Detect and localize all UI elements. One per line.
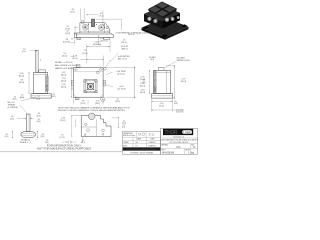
svg-text:.12: .12: [71, 39, 74, 41]
right side view left dim: [142, 70, 150, 93]
left side view bottom labels: [34, 94, 56, 101]
detail A foot flange: [21, 131, 35, 137]
svg-text:[4.5]: [4.5]: [10, 118, 14, 120]
svg-text:BALL DRIVER ⌀.35 [9.0]: BALL DRIVER ⌀.35 [9.0]: [55, 64, 76, 67]
svg-text:[12.7mm]: [12.7mm]: [118, 88, 126, 90]
dim: below front view 2.000 [50.8mm]: [71, 39, 111, 64]
svg-text:[6.4]: [6.4]: [151, 59, 155, 61]
front elevation view body: [74, 19, 113, 40]
label near 3D view: [128, 33, 141, 36]
title block frame: [123, 128, 198, 154]
svg-text:[50.8mm]: [50.8mm]: [93, 44, 102, 46]
dim: plan view top: [72, 55, 103, 66]
svg-text:[38.1]: [38.1]: [95, 103, 100, 105]
left side view dims: [19, 72, 30, 99]
label: M6 ball drivers 3 lines: [55, 61, 78, 70]
plan view left dim: [61, 68, 72, 98]
plan view right edge screw: [103, 80, 105, 86]
dim: left of front view: [65, 26, 79, 35]
dim: lower left of front view: [63, 37, 75, 45]
svg-text:[9.0]: [9.0]: [71, 12, 75, 14]
leader line from screw to counterbore note: [96, 19, 151, 34]
svg-text:THOR: THOR: [164, 130, 178, 136]
svg-text:SCALE 2 : 1: SCALE 2 : 1: [19, 141, 31, 144]
bottom view left dims: [60, 115, 81, 139]
plan view outer body: [73, 68, 103, 98]
svg-text:[9.0]: [9.0]: [37, 121, 41, 123]
svg-text:[2.5]: [2.5]: [22, 51, 26, 53]
detail callout circle A: [100, 97, 105, 101]
svg-text:[60.0]: [60.0]: [140, 86, 145, 88]
detail A stem: [26, 114, 30, 131]
svg-text:[35.0]: [35.0]: [61, 120, 66, 122]
plan view bottom edge screw: [75, 97, 79, 100]
plan view right leader labels: [106, 70, 127, 90]
detail A caption: [19, 139, 31, 145]
dim: top right of front view: [86, 13, 104, 18]
sheet bottom border line: [0, 151, 123, 153]
svg-text:[M3.5]: [M3.5]: [122, 48, 128, 50]
svg-text:REQUEST, USE RECOMMENDED TORQU: REQUEST, USE RECOMMENDED TORQUE VALUES W…: [58, 109, 125, 112]
svg-text:[8.0]: [8.0]: [41, 136, 45, 138]
svg-text:[30.0]: [30.0]: [61, 81, 66, 83]
svg-text:[14.0]: [14.0]: [121, 42, 126, 44]
right side view body: [152, 68, 173, 99]
svg-text:DIMENSIONS: DIMENSIONS: [123, 133, 132, 135]
svg-text:[22]: [22]: [142, 82, 146, 84]
svg-text:[15.0]: [15.0]: [62, 55, 67, 57]
svg-text:[20.0]: [20.0]: [82, 53, 87, 55]
svg-text:[4.5mm]: [4.5mm]: [63, 42, 71, 44]
right side view top label: [149, 57, 157, 61]
plan view bottom dims: [73, 98, 103, 106]
svg-text:NOTE: HIGH VACUUM CHAMBER COM: NOTE: HIGH VACUUM CHAMBER COMPATIBLE VER…: [58, 106, 130, 109]
svg-text:[6.0]: [6.0]: [13, 99, 17, 101]
M6 thread label stack: [8, 96, 37, 113]
right side view bottom dims: [152, 99, 185, 114]
detail A stem dims: [10, 113, 41, 123]
svg-text:[30.0]: [30.0]: [140, 92, 145, 94]
dim label cluster mid right: [98, 36, 129, 62]
svg-text:[56.0]: [56.0]: [61, 87, 66, 89]
svg-text:[5.0]: [5.0]: [5, 136, 9, 138]
svg-text:[30.0]: [30.0]: [72, 58, 77, 60]
label: left mid with arrow: [62, 53, 75, 58]
note text 2 lines: [58, 106, 130, 112]
svg-text:[6.0]: [6.0]: [37, 115, 41, 117]
left side view body: [31, 70, 51, 98]
right side view top right leader label: [164, 58, 190, 69]
svg-text:HANDLE (4 PLACES): HANDLE (4 PLACES): [55, 67, 74, 70]
svg-text:[10.0]: [10.0]: [115, 101, 120, 103]
svg-text:[50.8]: [50.8]: [159, 106, 164, 108]
ext line right top: [102, 11, 104, 25]
label above plan view top dim: [82, 50, 87, 55]
svg-text:TAPPED HOLE: TAPPED HOLE: [177, 59, 191, 62]
3D isometric render of stage: [142, 2, 189, 40]
svg-text:Ⓒ C: Ⓒ C: [149, 133, 155, 137]
title block right texts: [160, 135, 198, 154]
plan view left edge screw: [71, 80, 73, 89]
left side view: adjuster rod: [22, 49, 40, 73]
svg-text:[7.5]: [7.5]: [100, 15, 104, 17]
svg-text:[12.7]: [12.7]: [81, 142, 86, 144]
svg-text:MAX083/M: MAX083/M: [162, 151, 174, 154]
svg-text:[14.0]: [14.0]: [65, 33, 70, 35]
for information only note: [37, 143, 91, 150]
thorlabs logo: [163, 129, 193, 136]
svg-text:[6.0]: [6.0]: [20, 97, 24, 99]
plan view right big dim: [104, 66, 146, 99]
dim: top left of front view: [71, 9, 85, 21]
svg-text:[6.5mm]: [6.5mm]: [118, 73, 125, 75]
svg-text:1.5kg: 1.5kg: [188, 151, 195, 154]
svg-text:[4.6mm]: [4.6mm]: [100, 40, 108, 42]
leader label above plan view right corner: [104, 55, 131, 70]
svg-text:M6 BALL - ⌀.25 [6.4]: M6 BALL - ⌀.25 [6.4]: [55, 61, 73, 64]
svg-text:[3.0]: [3.0]: [37, 99, 41, 101]
svg-text:[25.0]: [25.0]: [81, 103, 86, 105]
svg-text:[M3 x 0.5]: [M3 x 0.5]: [118, 58, 127, 60]
detail A foot dims: [5, 131, 45, 138]
svg-text:[50.0]: [50.0]: [181, 81, 186, 83]
svg-text:N/A: N/A: [177, 146, 181, 149]
svg-text:[8.0]: [8.0]: [52, 96, 56, 98]
svg-text:[25.0]: [25.0]: [19, 82, 24, 84]
plan view inner rings, screws, centre hub: [84, 80, 97, 93]
svg-text:[17.8]: [17.8]: [60, 137, 65, 139]
svg-text:LABS: LABS: [183, 130, 191, 134]
svg-text:[1.5]: [1.5]: [122, 127, 126, 129]
svg-text:(4 PLACES): (4 PLACES): [8, 106, 19, 109]
dim right of bottom view: [112, 99, 127, 129]
bottom view bottom dims: [45, 137, 85, 144]
svg-text:COUNTERBORE, SCREWS INCLUDED (: COUNTERBORE, SCREWS INCLUDED (4): [116, 32, 152, 34]
svg-text:[60.0]: [60.0]: [19, 76, 24, 78]
title block left texts: [123, 133, 161, 155]
bottom view with stepped section: [81, 113, 111, 137]
svg-text:[40.0]: [40.0]: [61, 75, 66, 77]
svg-text:DETAIL A: DETAIL A: [21, 139, 31, 142]
svg-text:[8.0]: [8.0]: [174, 103, 178, 105]
right side view right dim: [166, 66, 186, 99]
plan view top edge screw bump: [76, 65, 80, 68]
svg-text:4 SLOTS: 4 SLOTS: [176, 112, 184, 114]
svg-text:NOT FOR MANUFACTURING PURPOSES: NOT FOR MANUFACTURING PURPOSES: [37, 147, 91, 151]
